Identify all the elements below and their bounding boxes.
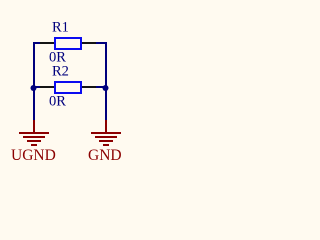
pin 1 of R2 [40, 86, 54, 88]
wire: right vertical net from R1 down to GND power port [105, 42, 107, 120]
ground GND (power ground symbol) [91, 120, 121, 145]
svg-text:0R: 0R [49, 94, 66, 110]
svg-text:R1: R1 [52, 20, 69, 36]
wire: R2 right stub [96, 86, 107, 88]
wire: R1 left stub [33, 42, 40, 44]
pin 1 of R1 [40, 42, 54, 44]
wire: left vertical net from R1 down to UGND power port [33, 42, 35, 120]
body of R2 [55, 82, 81, 93]
resistor R1 [40, 38, 96, 49]
resistor R2 [40, 82, 96, 93]
ground UGND (power ground symbol) [19, 120, 49, 145]
body of R1 [55, 38, 81, 49]
pin 2 of R1 [82, 42, 96, 44]
svg-text:UGND: UGND [11, 147, 56, 164]
wire [33, 42, 107, 120]
pin 2 of R2 [82, 86, 96, 88]
wire: R1 right stub [96, 42, 107, 44]
svg-text:R2: R2 [52, 64, 69, 80]
junction at left node [31, 85, 37, 91]
svg-text:GND: GND [88, 147, 122, 164]
junction at right node [103, 85, 109, 91]
wire: R2 left stub [33, 86, 40, 88]
